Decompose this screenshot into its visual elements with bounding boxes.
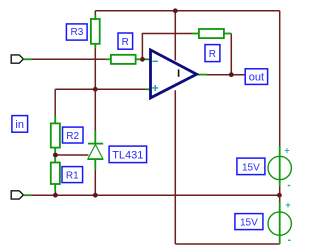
svg-text:out: out [249, 71, 264, 83]
svg-text:TL431: TL431 [112, 149, 143, 161]
wire feedback down to output [230, 34, 232, 75]
wire ground reference rail [30, 194, 280, 196]
svg-text:+: + [285, 200, 290, 210]
node junction top rail [173, 8, 178, 13]
wire TL431 ref horizontal [55, 154, 88, 156]
svg-text:15V: 15V [242, 162, 260, 173]
label R input [118, 33, 133, 49]
node junction opamp plus node [93, 87, 98, 92]
wire right vertical to V1 plus [279, 11, 281, 146]
label out [245, 69, 267, 85]
resistor R1 [51, 157, 60, 192]
resistor R2 [51, 116, 60, 155]
wire V2 plus stub [279, 195, 281, 201]
wire TL431 anode vertical [94, 170, 96, 196]
wire R1 bottom [54, 191, 56, 195]
wire bottom -15V rail [175, 243, 279, 245]
port input (top left) [11, 55, 31, 63]
wire output horizontal [205, 74, 245, 76]
wire TL431 cathode vertical [94, 89, 96, 131]
label in [12, 116, 28, 133]
label 15V bottom [235, 214, 263, 230]
wire top +15V rail [95, 10, 279, 12]
op-amp U1 [146, 50, 207, 98]
wire R2 top vertical [54, 89, 56, 116]
node junction inverting input [140, 57, 145, 62]
svg-text:+: + [284, 146, 289, 156]
svg-text:R: R [122, 37, 129, 48]
label 15V top [237, 158, 265, 175]
wire feedback up [142, 34, 192, 60]
svg-text:in: in [15, 119, 24, 131]
port common (bottom left) [11, 191, 31, 199]
wire op-amp V+ supply drop [174, 11, 176, 61]
shunt reference TL431 D1 [88, 131, 103, 170]
svg-text:15V: 15V [240, 218, 258, 229]
wire noninverting input horizontal [55, 88, 146, 90]
svg-text:R3: R3 [71, 27, 84, 38]
label R feedback [205, 45, 220, 62]
wire V1 minus stub [279, 186, 281, 195]
node junction output [229, 72, 234, 77]
resistor R3 [91, 15, 100, 49]
wire R3 branch vertical [94, 11, 96, 19]
voltage source V2 15V bottom [268, 200, 291, 244]
label TL431 [109, 146, 147, 163]
resistor R feedback [192, 29, 232, 38]
node junction R1 R2 ref [53, 153, 58, 158]
node junction TL431 anode [93, 193, 98, 198]
svg-text:R: R [209, 49, 216, 60]
wire op-amp V- supply drop [174, 90, 176, 244]
wire input signal horizontal [30, 58, 147, 60]
label R1 [62, 167, 83, 183]
node junction R1 bottom [53, 193, 58, 198]
svg-text:R2: R2 [66, 131, 79, 142]
node junction supply midpoint [277, 193, 282, 198]
svg-text:R1: R1 [66, 170, 79, 181]
voltage source V1 15V top [268, 146, 291, 186]
label R3 [66, 24, 87, 40]
resistor R input [106, 55, 141, 64]
label R2 [63, 127, 84, 143]
